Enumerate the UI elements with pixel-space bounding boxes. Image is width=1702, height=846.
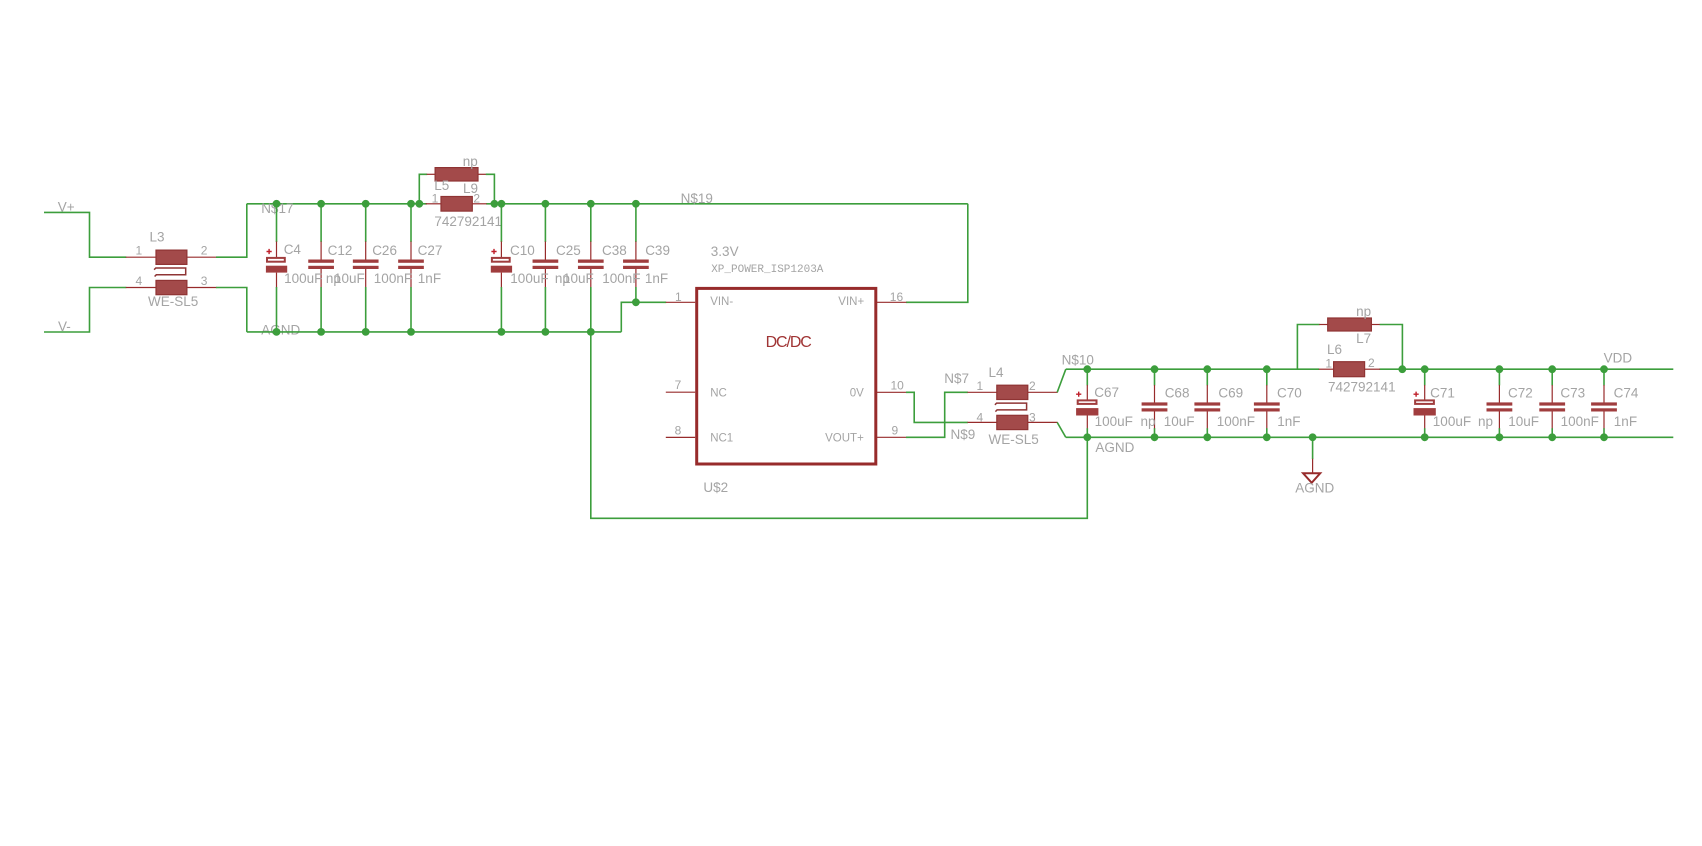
svg-text:100nF: 100nF <box>602 271 640 286</box>
svg-text:C39: C39 <box>645 243 670 258</box>
capacitor C73 pin 1 stub <box>1551 385 1553 403</box>
wire C67 top lead <box>1086 369 1088 385</box>
capacitor C10 top plate <box>492 258 510 262</box>
svg-text:VIN+: VIN+ <box>838 296 864 308</box>
inductor L3 winding 2 body <box>156 280 187 294</box>
inductor L3 pin 2 stub <box>187 256 217 258</box>
svg-text:2: 2 <box>1029 379 1036 393</box>
wire C39 bottom lead <box>635 287 637 302</box>
capacitor C26 top plate <box>353 260 379 263</box>
wire C39 bottom to VIN- node <box>621 302 636 332</box>
junction VDD C74 <box>1600 365 1608 373</box>
wire AGND branch down and around <box>591 332 1088 518</box>
junction AGND C70 <box>1263 433 1271 441</box>
svg-text:1: 1 <box>1325 357 1332 371</box>
wire L3 pin 2 to N$17 rail <box>216 204 247 257</box>
junction AGND C4 <box>273 328 281 336</box>
inductor L4 coupling symbol <box>995 403 1027 412</box>
capacitor C72 top plate <box>1487 402 1513 405</box>
capacitor C39 pin 1 stub <box>635 242 637 260</box>
capacitor C26 pin 2 stub <box>365 269 367 287</box>
svg-text:4: 4 <box>977 410 984 424</box>
capacitor C10 pin 1 stub <box>500 242 502 258</box>
wire C69 top lead <box>1206 369 1208 385</box>
junction N$19 C10 <box>498 200 506 208</box>
capacitor C72 pin 2 stub <box>1498 412 1500 429</box>
capacitor C39 bottom plate <box>623 266 649 269</box>
inductor L4 pin 2 stub <box>1028 391 1058 393</box>
svg-text:1: 1 <box>977 379 984 393</box>
wire C12 bottom lead <box>320 287 322 332</box>
svg-text:4: 4 <box>136 274 143 288</box>
capacitor C71 pin 1 stub <box>1424 385 1426 400</box>
wire C4 bottom lead <box>276 287 278 332</box>
inductor L9 pin 1 stub <box>426 203 441 205</box>
wire AGND rail left <box>247 331 622 333</box>
svg-text:1: 1 <box>432 191 439 205</box>
wire AGND symbol lead <box>1312 437 1314 459</box>
wire C68 bottom lead <box>1154 428 1156 437</box>
svg-text:V-: V- <box>58 319 71 334</box>
ic U$2 pin 10 stub <box>877 391 906 393</box>
wire C67 bottom lead <box>1086 428 1088 437</box>
inductor L3 winding 1 body <box>156 250 187 264</box>
svg-text:1nF: 1nF <box>645 271 668 286</box>
capacitor C27 top plate <box>398 260 424 263</box>
svg-text:C69: C69 <box>1218 386 1243 401</box>
capacitor C74 top plate <box>1591 402 1617 405</box>
inductor L4 winding 1 body <box>997 385 1028 399</box>
svg-text:L6: L6 <box>1327 342 1342 357</box>
ic U$2 body <box>697 288 876 464</box>
junction AGND symbol tap <box>1309 433 1317 441</box>
svg-text:C12: C12 <box>328 243 353 258</box>
junction N$10 C69 <box>1203 365 1211 373</box>
svg-text:1: 1 <box>136 244 143 258</box>
svg-text:3.3V: 3.3V <box>711 244 739 259</box>
svg-text:2: 2 <box>1368 356 1375 370</box>
svg-text:3: 3 <box>1029 410 1036 424</box>
svg-text:L3: L3 <box>150 230 165 245</box>
svg-text:V+: V+ <box>58 199 75 214</box>
junction AGND C38 branch <box>587 328 595 336</box>
svg-text:10uF: 10uF <box>563 271 594 286</box>
wire L7 right leg <box>1380 325 1403 370</box>
junction AGND C27 <box>407 328 415 336</box>
capacitor C72 bottom plate <box>1487 408 1513 411</box>
capacitor C73 bottom plate <box>1539 408 1565 411</box>
svg-text:9: 9 <box>892 424 899 438</box>
wire L5 right leg <box>486 174 495 204</box>
inductor L7 pin 1 stub <box>1319 324 1328 326</box>
wire C71 bottom lead <box>1424 428 1426 437</box>
wire L7 left leg <box>1297 325 1319 370</box>
svg-text:np: np <box>1478 414 1493 429</box>
capacitor C69 pin 2 stub <box>1206 412 1208 429</box>
wire C69 bottom lead <box>1206 428 1208 437</box>
capacitor C26 bottom plate <box>353 266 379 269</box>
svg-text:1nF: 1nF <box>1277 414 1300 429</box>
svg-text:742792141: 742792141 <box>1328 380 1396 395</box>
wire V- lead <box>44 288 126 333</box>
capacitor C73 pin 2 stub <box>1551 412 1553 429</box>
junction AGND C10 <box>498 328 506 336</box>
junction AGND C69 <box>1203 433 1211 441</box>
junction VDD C72 <box>1496 365 1504 373</box>
capacitor C69 top plate <box>1194 402 1220 405</box>
wire N$19 to U$2 pin 16 <box>906 204 968 302</box>
capacitor C12 pin 2 stub <box>320 269 322 287</box>
inductor L3 pin 4 stub <box>126 287 156 289</box>
capacitor C68 pin 1 stub <box>1154 385 1156 403</box>
junction AGND C68 <box>1151 433 1159 441</box>
svg-text:C27: C27 <box>418 243 443 258</box>
svg-text:10uF: 10uF <box>1164 414 1195 429</box>
capacitor C74 pin 2 stub <box>1603 412 1605 429</box>
junction N$17 C26 <box>362 200 370 208</box>
wire C26 bottom lead <box>365 287 367 332</box>
svg-text:7: 7 <box>675 378 682 392</box>
svg-text:WE-SL5: WE-SL5 <box>148 294 198 309</box>
svg-text:C72: C72 <box>1508 386 1533 401</box>
junction N$19 C25 <box>542 200 550 208</box>
svg-text:1: 1 <box>675 290 682 304</box>
svg-text:WE-SL5: WE-SL5 <box>989 432 1039 447</box>
svg-text:1nF: 1nF <box>1614 414 1637 429</box>
svg-text:100nF: 100nF <box>1561 414 1599 429</box>
junction VDD C73 <box>1548 365 1556 373</box>
ic U$2 pin 8 stub <box>666 436 695 438</box>
svg-text:100uF: 100uF <box>510 271 548 286</box>
inductor L7 body <box>1328 318 1372 331</box>
svg-text:10uF: 10uF <box>334 271 365 286</box>
junction AGND C67 <box>1083 433 1091 441</box>
junction AGND C12 <box>317 328 325 336</box>
inductor L4 pin 1 stub <box>968 391 997 393</box>
wire L4 pin 3 diagonal to AGND rail <box>1057 422 1066 437</box>
svg-text:NC: NC <box>710 388 727 400</box>
capacitor C38 top plate <box>578 260 604 263</box>
inductor L3 pin 1 stub <box>126 256 156 258</box>
inductor L9 pin 2 stub <box>472 203 486 205</box>
wire N$17 rail <box>247 203 427 205</box>
junction N$19 C39 <box>632 200 640 208</box>
wire C10 bottom lead <box>500 287 502 332</box>
junction N$17 C4 <box>273 200 281 208</box>
junction N$17 L5 left <box>415 200 423 208</box>
wire C25 top lead <box>544 204 546 242</box>
capacitor C4 bottom plate <box>266 266 287 273</box>
capacitor C74 pin 1 stub <box>1603 385 1605 403</box>
wire N$19 rail <box>486 203 968 205</box>
svg-text:742792141: 742792141 <box>434 214 502 229</box>
capacitor C10 bottom plate <box>491 266 512 273</box>
capacitor C67 plus sign <box>1076 392 1081 397</box>
junction AGND C72 <box>1496 433 1504 441</box>
capacitor C68 pin 2 stub <box>1154 412 1156 429</box>
svg-text:C4: C4 <box>284 242 302 257</box>
wire C38 bottom lead <box>590 287 592 332</box>
svg-text:AGND: AGND <box>1295 481 1334 496</box>
capacitor C12 top plate <box>308 260 334 263</box>
svg-text:C74: C74 <box>1614 386 1639 401</box>
wire C26 top lead <box>365 204 367 242</box>
capacitor C72 pin 1 stub <box>1498 385 1500 403</box>
inductor L6 pin 1 stub <box>1319 368 1334 370</box>
svg-text:XP_POWER_ISP1203A: XP_POWER_ISP1203A <box>711 264 824 276</box>
svg-text:2: 2 <box>201 244 208 258</box>
capacitor C12 pin 1 stub <box>320 242 322 260</box>
wire C12 top lead <box>320 204 322 242</box>
wire C73 top lead <box>1551 369 1553 385</box>
wire V+ lead <box>44 212 126 257</box>
capacitor C4 plus sign <box>267 249 272 254</box>
ic U$2 pin 9 stub <box>877 436 906 438</box>
svg-text:N$7: N$7 <box>944 371 969 386</box>
svg-text:VDD: VDD <box>1604 351 1633 366</box>
junction N$10 C68 <box>1151 365 1159 373</box>
svg-text:100uF: 100uF <box>1095 414 1133 429</box>
svg-text:C71: C71 <box>1430 386 1455 401</box>
wire AGND rail right <box>1066 436 1674 438</box>
inductor L6 pin 2 stub <box>1365 368 1380 370</box>
svg-text:8: 8 <box>675 424 682 438</box>
wire C27 top lead <box>410 204 412 242</box>
capacitor C74 bottom plate <box>1591 408 1617 411</box>
capacitor C4 top plate <box>267 258 285 262</box>
junction VDD L7 right <box>1398 365 1406 373</box>
junction AGND C71 <box>1421 433 1429 441</box>
svg-text:DC/DC: DC/DC <box>766 334 812 351</box>
svg-text:100nF: 100nF <box>1217 414 1255 429</box>
svg-text:10uF: 10uF <box>1508 414 1539 429</box>
wire C72 bottom lead <box>1498 428 1500 437</box>
svg-text:C67: C67 <box>1094 385 1119 400</box>
ground AGND pin stub <box>1312 459 1314 474</box>
wire C70 bottom lead <box>1266 428 1268 437</box>
svg-text:NC1: NC1 <box>710 433 733 445</box>
svg-text:3: 3 <box>201 274 208 288</box>
svg-text:L7: L7 <box>1356 331 1371 346</box>
svg-text:C25: C25 <box>556 243 581 258</box>
inductor L6 body <box>1334 362 1365 377</box>
capacitor C69 bottom plate <box>1194 408 1220 411</box>
inductor L7 pin 2 stub <box>1371 324 1380 326</box>
svg-text:0V: 0V <box>850 388 864 400</box>
svg-text:N$19: N$19 <box>681 191 713 206</box>
inductor L4 pin 3 stub <box>1028 421 1058 423</box>
junction N$17 C27 <box>407 200 415 208</box>
inductor L5 pin 1 stub <box>427 173 435 175</box>
svg-text:N$10: N$10 <box>1062 353 1094 368</box>
wire C25 bottom lead <box>544 287 546 332</box>
wire VDD rail <box>1380 368 1674 370</box>
svg-text:C38: C38 <box>602 243 627 258</box>
svg-text:np: np <box>463 154 478 169</box>
inductor L4 pin 4 stub <box>968 421 997 423</box>
capacitor C25 pin 1 stub <box>544 242 546 260</box>
wire N$7 VOUT+ to L4 pin 1 <box>906 392 968 437</box>
wire C74 top lead <box>1603 369 1605 385</box>
ground AGND triangle <box>1303 473 1320 483</box>
svg-text:16: 16 <box>890 290 904 304</box>
capacitor C25 top plate <box>533 260 559 263</box>
junction AGND C74 <box>1600 433 1608 441</box>
ic U$2 pin 16 stub <box>877 301 906 303</box>
capacitor C71 plus sign <box>1414 392 1419 397</box>
wire C27 bottom lead <box>410 287 412 332</box>
capacitor C73 top plate <box>1539 402 1565 405</box>
capacitor C38 bottom plate <box>578 266 604 269</box>
svg-text:AGND: AGND <box>261 323 300 338</box>
capacitor C4 pin 1 stub <box>276 242 278 258</box>
capacitor C38 pin 2 stub <box>590 269 592 287</box>
junction N$19 L5 right <box>491 200 499 208</box>
capacitor C69 pin 1 stub <box>1206 385 1208 403</box>
wire L3 pin 3 to AGND rail <box>216 288 247 332</box>
capacitor C70 pin 2 stub <box>1266 412 1268 429</box>
junction N$19 C38 <box>587 200 595 208</box>
wire L4 pin 2 diagonal to N$10 rail <box>1057 369 1066 392</box>
wire C72 top lead <box>1498 369 1500 385</box>
ic U$2 pin 1 stub <box>666 301 695 303</box>
inductor L4 winding 2 body <box>997 415 1028 429</box>
inductor L5 body <box>435 168 478 181</box>
svg-text:100uF: 100uF <box>284 271 322 286</box>
svg-text:C73: C73 <box>1560 386 1585 401</box>
capacitor C71 bottom plate <box>1414 408 1436 415</box>
capacitor C25 pin 2 stub <box>544 269 546 287</box>
capacitor C70 pin 1 stub <box>1266 385 1268 403</box>
junction AGND C73 <box>1548 433 1556 441</box>
wire C74 bottom lead <box>1603 428 1605 437</box>
capacitor C39 top plate <box>623 260 649 263</box>
wire C4 top lead <box>276 204 278 242</box>
svg-text:1nF: 1nF <box>418 271 441 286</box>
inductor L5 pin 2 stub <box>478 173 486 175</box>
svg-text:VIN-: VIN- <box>710 296 733 308</box>
svg-text:10: 10 <box>891 378 905 392</box>
wire C39 top lead <box>635 204 637 242</box>
capacitor C67 pin 2 stub <box>1086 416 1088 429</box>
capacitor C4 pin 2 stub <box>276 273 278 288</box>
wire C68 top lead <box>1154 369 1156 385</box>
capacitor C67 bottom plate <box>1076 408 1098 415</box>
capacitor C68 top plate <box>1142 402 1168 405</box>
svg-text:C68: C68 <box>1165 386 1190 401</box>
capacitor C38 pin 1 stub <box>590 242 592 260</box>
wire C10 top lead <box>500 204 502 242</box>
capacitor C71 top plate <box>1415 400 1434 404</box>
wire C38 top lead <box>590 204 592 242</box>
wire C70 top lead <box>1266 369 1268 385</box>
capacitor C10 pin 2 stub <box>500 273 502 288</box>
junction AGND C26 <box>362 328 370 336</box>
wire N$10 rail <box>1066 368 1319 370</box>
capacitor C25 bottom plate <box>533 266 559 269</box>
capacitor C71 pin 2 stub <box>1424 416 1426 429</box>
capacitor C68 bottom plate <box>1142 408 1168 411</box>
junction N$10 C70 <box>1263 365 1271 373</box>
junction VIN- node <box>632 298 640 306</box>
capacitor C27 pin 1 stub <box>410 242 412 260</box>
svg-text:AGND: AGND <box>1095 440 1134 455</box>
svg-text:C26: C26 <box>372 243 397 258</box>
junction AGND C25 <box>542 328 550 336</box>
svg-text:2: 2 <box>473 191 480 205</box>
svg-text:100uF: 100uF <box>1433 414 1471 429</box>
capacitor C27 bottom plate <box>398 266 424 269</box>
svg-text:U$2: U$2 <box>703 480 728 495</box>
inductor L9 body <box>441 197 472 212</box>
svg-text:L4: L4 <box>989 365 1005 380</box>
wire L5 left leg <box>419 174 427 204</box>
svg-text:100nF: 100nF <box>374 271 412 286</box>
svg-text:C10: C10 <box>510 243 535 258</box>
capacitor C27 pin 2 stub <box>410 269 412 287</box>
capacitor C70 top plate <box>1254 402 1280 405</box>
wire N$9 0V to L4 pin 4 <box>906 392 968 422</box>
capacitor C39 pin 2 stub <box>635 269 637 287</box>
capacitor C10 plus sign <box>491 249 496 254</box>
capacitor C67 pin 1 stub <box>1086 385 1088 400</box>
capacitor C70 bottom plate <box>1254 408 1280 411</box>
inductor L3 coupling symbol <box>154 268 186 277</box>
wire C71 top lead <box>1424 369 1426 385</box>
svg-text:N$9: N$9 <box>951 427 976 442</box>
junction N$17 C12 <box>317 200 325 208</box>
svg-text:C70: C70 <box>1277 386 1302 401</box>
svg-text:VOUT+: VOUT+ <box>825 433 864 445</box>
junction VDD C71 <box>1421 365 1429 373</box>
svg-text:np: np <box>1141 414 1156 429</box>
capacitor C67 top plate <box>1078 400 1097 404</box>
ic U$2 pin 7 stub <box>666 391 695 393</box>
svg-text:np: np <box>1356 304 1371 319</box>
wire VIN- node to U$2 pin 1 <box>636 301 666 303</box>
capacitor C26 pin 1 stub <box>365 242 367 260</box>
inductor L3 pin 3 stub <box>187 287 217 289</box>
junction N$10 C67 <box>1083 365 1091 373</box>
capacitor C12 bottom plate <box>308 266 334 269</box>
wire C73 bottom lead <box>1551 428 1553 437</box>
